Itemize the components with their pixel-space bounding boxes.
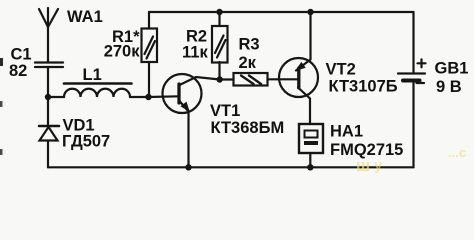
svg-text:GB1: GB1 — [435, 60, 469, 78]
wire C1 bottom to node A — [47, 67, 49, 97]
svg-text:VT2: VT2 — [326, 61, 356, 79]
svg-text:ГД507: ГД507 — [62, 133, 110, 151]
svg-text:9 В: 9 В — [436, 78, 462, 96]
svg-text:82: 82 — [9, 62, 27, 80]
top rail wire — [149, 11, 414, 13]
inductor L1 — [64, 84, 132, 98]
resistor R1 — [142, 12, 158, 97]
transistor VT2 — [279, 12, 318, 124]
scan edge artifact left — [0, 58, 3, 66]
scan edge artifact left 2 — [0, 101, 3, 107]
resistor R3 — [220, 73, 298, 86]
node A junction — [45, 94, 51, 100]
svg-text:КТ368БМ: КТ368БМ — [211, 119, 285, 137]
svg-text:у: у — [374, 157, 383, 174]
svg-text:C1: C1 — [11, 46, 32, 64]
svg-text:11к: 11к — [182, 44, 208, 62]
wire node A to L1 — [48, 96, 64, 98]
svg-text:КТ3107Б: КТ3107Б — [329, 78, 398, 96]
svg-text:WA1: WA1 — [67, 8, 103, 26]
diode VD1 — [39, 97, 59, 167]
resistor R2 — [212, 12, 228, 80]
transistor VT1 — [149, 74, 220, 167]
svg-text:L1: L1 — [83, 66, 102, 84]
junction bottom rail VT1 emitter — [185, 164, 191, 170]
junction top rail R2 — [216, 9, 222, 15]
node C junction (R2/R3/VT1 collector) — [217, 76, 223, 82]
junction top rail VT2 emitter — [307, 9, 313, 15]
scan edge artifact left 3 — [0, 149, 3, 155]
capacitor C1 — [35, 63, 63, 68]
battery GB1 — [398, 12, 426, 167]
svg-text:270к: 270к — [104, 43, 141, 61]
svg-text:R3: R3 — [239, 36, 260, 54]
svg-text:2к: 2к — [239, 54, 257, 72]
svg-text:HA1: HA1 — [330, 123, 363, 141]
wire L1 to node B — [130, 96, 149, 98]
svg-text:VT1: VT1 — [210, 102, 240, 120]
junction bottom rail HA1 — [307, 164, 313, 170]
svg-text:...с: ...с — [448, 145, 466, 160]
background paper — [0, 0, 474, 178]
sounder HA1 — [299, 124, 323, 167]
svg-text:ш: ш — [356, 156, 370, 175]
node B junction — [145, 94, 151, 100]
antenna WA1 — [39, 8, 58, 63]
yellow watermark remnants — [356, 145, 466, 175]
bottom rail wire — [48, 166, 414, 168]
